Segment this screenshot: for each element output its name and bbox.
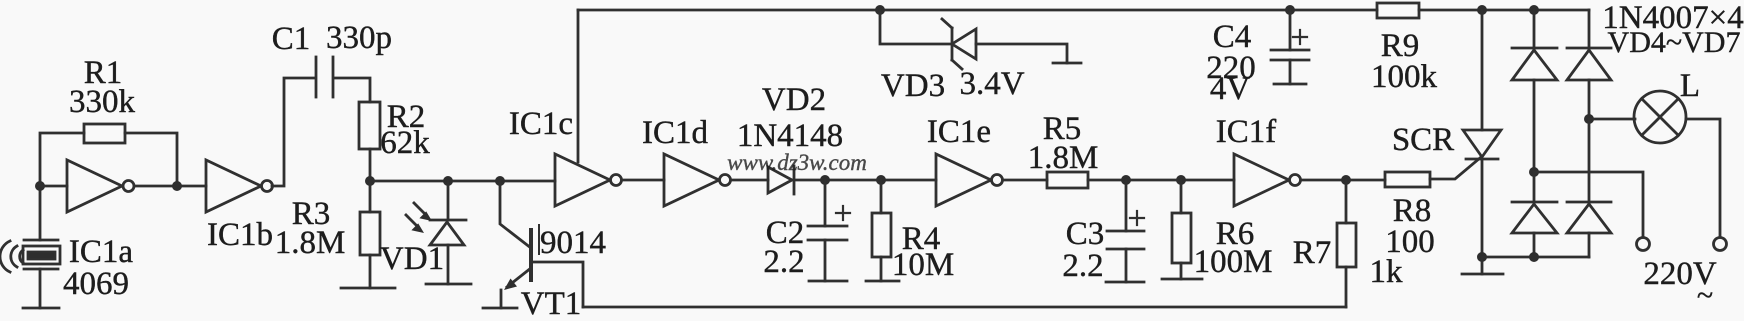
- terminal: 220V left: [1637, 238, 1650, 251]
- wire: rail from R9 to bridge top corner: [1419, 9, 1589, 12]
- capacitor C3 (electrolytic 2.2): [1107, 211, 1144, 282]
- wire: IC1b output up to C1: [272, 78, 315, 186]
- svg-text:IC1e: IC1e: [927, 114, 991, 150]
- wire: IC1f output to R8: [1301, 179, 1385, 182]
- ground (VD1): [426, 283, 471, 286]
- wire: R1 feedback loop left leg: [40, 133, 84, 186]
- zener diode VD3 (3.4V): [942, 19, 976, 69]
- op-amp inverter IC1d: [664, 154, 731, 206]
- node: C4 rail junction: [1285, 5, 1295, 15]
- ground (VD3): [1053, 62, 1081, 65]
- VD1 light arrow 1: [414, 203, 432, 221]
- wire: R4 top lead: [880, 180, 883, 213]
- svg-text:62k: 62k: [380, 125, 430, 161]
- op-amp inverter IC1f: [1234, 154, 1301, 206]
- svg-text:1.8M: 1.8M: [275, 225, 346, 261]
- op-amp inverter IC1b: [206, 160, 273, 212]
- svg-text:2.2: 2.2: [1062, 248, 1103, 284]
- wire: middle column upper lead: [1533, 10, 1536, 49]
- lamp L: [1634, 91, 1686, 143]
- wire: VT1 emitter to ground: [500, 290, 503, 308]
- svg-text:IC1b: IC1b: [207, 217, 273, 253]
- ground (microphone): [23, 307, 59, 310]
- node: IC1a output junction: [172, 181, 182, 191]
- wire: main row R2 junction to IC1c input: [370, 180, 555, 183]
- wire: C1 to R2 top: [334, 78, 370, 102]
- resistor R6: [1172, 213, 1191, 263]
- wire: R5 to IC1f input: [1088, 179, 1234, 182]
- wire: VD3 anode to ground: [976, 44, 1067, 63]
- capacitor C4 (electrolytic 220/4V): [1271, 30, 1309, 84]
- svg-text:VT1: VT1: [521, 286, 582, 321]
- ground (R6): [1162, 278, 1202, 281]
- wire: SCR cathode junction to ground: [1481, 257, 1484, 274]
- terminal: 220V right: [1714, 238, 1727, 251]
- svg-text:IC1f: IC1f: [1216, 114, 1277, 150]
- node: R7 junction: [1341, 175, 1351, 185]
- wire: IC1a output to IC1b input: [134, 185, 206, 188]
- wire: feedback line from VT1 base to R7 bottom: [583, 306, 1346, 309]
- node: R6 junction: [1176, 175, 1186, 185]
- svg-text:10M: 10M: [892, 247, 954, 283]
- svg-text:VD3: VD3: [881, 68, 945, 104]
- resistor R7: [1337, 223, 1356, 267]
- resistor R1: [84, 124, 125, 143]
- wire: R6 top lead: [1180, 180, 1183, 213]
- capacitor C2 (electrolytic 2.2): [808, 206, 850, 281]
- wire: right column upper lead: [1588, 10, 1591, 49]
- wire: SCR anode lead: [1481, 10, 1484, 130]
- svg-text:VD2: VD2: [762, 82, 826, 118]
- microphone BM sound waves: [0, 241, 23, 272]
- wire: mic node to IC1a input: [40, 185, 67, 188]
- ground (VT1 emitter): [483, 307, 517, 310]
- resistor R9: [1377, 3, 1419, 18]
- resistor R2: [359, 102, 380, 149]
- wire: R6 bottom lead: [1180, 263, 1183, 279]
- node: AC input node (middle column): [1529, 167, 1539, 177]
- wire: AC node to VD6 cathode: [1533, 172, 1536, 202]
- svg-text:R7: R7: [1293, 235, 1332, 271]
- rectifier diode VD4: [1512, 48, 1557, 80]
- ground (R4): [866, 280, 899, 283]
- wire: lamp to right 220V terminal: [1686, 119, 1720, 237]
- wire: SCR cathode lead: [1481, 159, 1484, 257]
- op-amp inverter IC1c: [555, 154, 622, 206]
- wire: C2 top lead: [824, 180, 827, 226]
- node: VD6 negative bus junction: [1529, 252, 1539, 262]
- svg-text:SCR: SCR: [1392, 122, 1454, 158]
- capacitor C1: [316, 57, 333, 97]
- wire: lamp node to lamp L: [1589, 118, 1635, 121]
- wire: C3 top lead: [1125, 180, 1128, 231]
- wire: VD1 cathode lead: [447, 181, 450, 220]
- microphone BM (piezo element): [23, 188, 60, 308]
- svg-text:330p: 330p: [326, 20, 392, 56]
- ground (C4): [1274, 83, 1306, 86]
- svg-text:100k: 100k: [1371, 59, 1438, 95]
- svg-text:L: L: [1680, 68, 1700, 104]
- resistor R3: [360, 212, 380, 255]
- svg-text:1.8M: 1.8M: [1028, 140, 1099, 176]
- svg-text:VD4~VD7: VD4~VD7: [1608, 26, 1741, 59]
- node: VD3 rail junction: [875, 5, 885, 15]
- resistor R5: [1047, 172, 1088, 188]
- wire: VD7 anode to negative bus corner: [1588, 233, 1591, 257]
- rectifier diode VD6: [1512, 202, 1557, 233]
- svg-text:330k: 330k: [69, 84, 136, 120]
- wire: R7 bottom lead to feedback line: [1345, 267, 1348, 307]
- svg-text:3.4V: 3.4V: [959, 66, 1024, 102]
- svg-text:4V: 4V: [1210, 71, 1251, 107]
- wire: supply rail drop to IC1c power pin: [577, 10, 580, 162]
- node: VD1 junction: [443, 176, 453, 186]
- wire: VD2 cathode to IC1e input: [794, 179, 936, 182]
- wire: R8 to SCR gate: [1430, 158, 1480, 179]
- VD1 light arrow 2: [406, 215, 424, 233]
- wire: VD5 anode to lamp node: [1588, 80, 1591, 119]
- ground (C2): [809, 280, 847, 283]
- node: R2/R3 junction: [365, 176, 375, 186]
- node: C2 junction: [820, 175, 830, 185]
- svg-text:IC1c: IC1c: [509, 106, 573, 142]
- node: lamp AC node (right column): [1584, 114, 1594, 124]
- svg-text:4069: 4069: [63, 266, 129, 302]
- svg-text:~: ~: [1697, 279, 1713, 312]
- wire: bridge bottom negative bus: [1482, 256, 1589, 259]
- svg-text:www.dz3w.com: www.dz3w.com: [727, 150, 867, 175]
- op-amp inverter IC1e: [936, 154, 1003, 206]
- wire: R1 feedback loop right leg: [125, 133, 177, 186]
- svg-text:C3: C3: [1066, 216, 1105, 252]
- wire: R2 bottom to main row: [369, 149, 372, 181]
- transistor VT1 (9014 NPN): [504, 225, 539, 290]
- wire: AC node to left 220V terminal: [1534, 172, 1643, 237]
- wire: IC1c output to IC1d input: [622, 179, 664, 182]
- diode VD2 (1N4148): [768, 166, 794, 194]
- ground (bridge negative): [1462, 273, 1503, 276]
- wire: R4 bottom lead: [880, 257, 883, 281]
- node: VT1 collector junction: [495, 176, 505, 186]
- op-amp inverter IC1a: [67, 160, 134, 212]
- node: SCR cathode / bridge negative junction: [1477, 252, 1487, 262]
- node: C3 junction: [1121, 175, 1131, 185]
- wire: VD4 anode to AC node: [1533, 80, 1536, 172]
- wire: R3 bottom lead: [369, 255, 372, 288]
- rectifier diode VD5: [1567, 48, 1611, 80]
- svg-text:IC1a: IC1a: [69, 234, 134, 270]
- wire: VD6 anode to negative bus: [1533, 233, 1536, 257]
- ground (C3): [1106, 281, 1144, 284]
- svg-text:9014: 9014: [540, 225, 606, 261]
- resistor R8: [1385, 172, 1430, 187]
- svg-text:1N4148: 1N4148: [737, 118, 843, 154]
- wire: IC1e output to R5: [1003, 179, 1047, 182]
- svg-text:100M: 100M: [1194, 244, 1273, 280]
- svg-text:100: 100: [1385, 224, 1435, 260]
- svg-text:2.2: 2.2: [763, 244, 804, 280]
- node: IC1a input junction: [35, 181, 45, 191]
- svg-text:IC1d: IC1d: [642, 115, 709, 151]
- node: R4 junction: [876, 175, 886, 185]
- svg-text:C1: C1: [272, 21, 311, 57]
- wire: VT1 collector lead: [500, 181, 531, 248]
- ground (R3): [341, 287, 395, 290]
- photodiode VD1: [430, 220, 466, 284]
- wire: IC1d output to VD2 anode: [731, 179, 768, 182]
- resistor R4: [872, 213, 891, 257]
- wire: VT1 base to feedback line: [531, 262, 583, 307]
- wire: lamp node to VD7 cathode: [1588, 119, 1591, 202]
- wire: positive supply rail (top): [578, 9, 1377, 12]
- wire: rail to VD3 cathode: [880, 10, 951, 44]
- wire: R3 top lead: [369, 181, 372, 212]
- svg-text:VD1: VD1: [380, 241, 444, 277]
- wire: R7 top lead: [1345, 180, 1348, 223]
- node: SCR anode rail junction: [1477, 5, 1487, 15]
- thyristor SCR: [1463, 130, 1501, 159]
- wire: C4 top lead: [1289, 10, 1292, 50]
- rectifier diode VD7: [1567, 202, 1611, 233]
- node: bridge rail junction (middle column): [1529, 5, 1539, 15]
